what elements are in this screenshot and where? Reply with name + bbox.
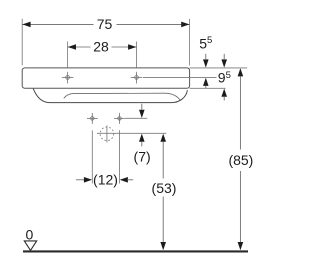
- dimension 75: extension line left: [21, 19, 23, 66]
- dimension (53): bottom arrow (down to baseline): [160, 242, 166, 250]
- reference line C (rim bottom extended right): [190, 87, 226, 89]
- dimension (85): top arrow (up to basin top line): [238, 68, 244, 76]
- tap hole cross right (elevation): [131, 72, 143, 84]
- dimension 75: arrowhead right: [181, 22, 189, 28]
- drain circle (dashed): [100, 127, 114, 141]
- floor baseline: [23, 250, 248, 252]
- washbasin bowl inner lip line: [64, 93, 181, 101]
- dimension 28: dimension line: [68, 46, 91, 48]
- dimension (53): top arrow (up to drain centerline): [160, 134, 166, 142]
- svg-text:(53): (53): [152, 180, 177, 196]
- fixing hole cross right (lower view): [114, 113, 125, 124]
- dimension (12): left arrow (pointing right): [76, 179, 84, 181]
- dimension 28: arrowhead right: [128, 44, 136, 50]
- dimension (85): bottom arrow (down to baseline): [238, 242, 244, 250]
- dimension 28: extension line right: [136, 42, 138, 68]
- svg-text:(12): (12): [93, 172, 118, 188]
- dimension (85): vertical line: [239, 76, 241, 149]
- svg-text:28: 28: [93, 38, 109, 54]
- washbasin bowl outer outline: [33, 89, 187, 103]
- datum triangle (floor level marker): [24, 241, 36, 251]
- dimension (53): vertical line: [162, 142, 164, 179]
- tap hole cross left (elevation): [62, 72, 74, 84]
- fixing hole cross left (lower view): [87, 113, 98, 124]
- washbasin rim (front elevation top box): [22, 68, 189, 88]
- dimension 75: arrowhead left: [22, 22, 30, 28]
- dimension 9.5: lower arrow (up): [221, 89, 227, 97]
- svg-text:75: 75: [97, 16, 113, 32]
- reference line A (basin top extended right): [190, 67, 248, 69]
- svg-text:(7): (7): [134, 149, 151, 165]
- dimension (12): right arrow (pointing left): [120, 177, 128, 183]
- dimension 28: extension line left: [67, 42, 69, 68]
- dimension (12): extension line right: [119, 130, 121, 183]
- drain horizontal centerline (bottom ref for dims 7 and 53): [97, 132, 166, 134]
- dimension (7): upper arrow (down): [141, 104, 143, 110]
- dimension (12): extension line left: [91, 130, 93, 183]
- dimension 9.5: upper arrow (down): [223, 54, 225, 59]
- dimension 75: dimension line: [22, 23, 93, 25]
- svg-text:(85): (85): [228, 152, 253, 168]
- reference line B (tap hole centerline extended right): [143, 76, 217, 78]
- svg-text:0: 0: [26, 226, 34, 242]
- dimension 75: extension line right: [189, 19, 191, 66]
- dimension (7): lower arrow (up): [139, 134, 145, 142]
- dimension 28: arrowhead left: [68, 44, 76, 50]
- fixing hole centerline segment (right, top ref for dim 7): [125, 117, 147, 119]
- dimension 5.5: upper arrow (down): [205, 54, 207, 59]
- drain vertical centerline: [106, 125, 108, 142]
- dimension 5.5: lower arrow (up): [203, 78, 209, 86]
